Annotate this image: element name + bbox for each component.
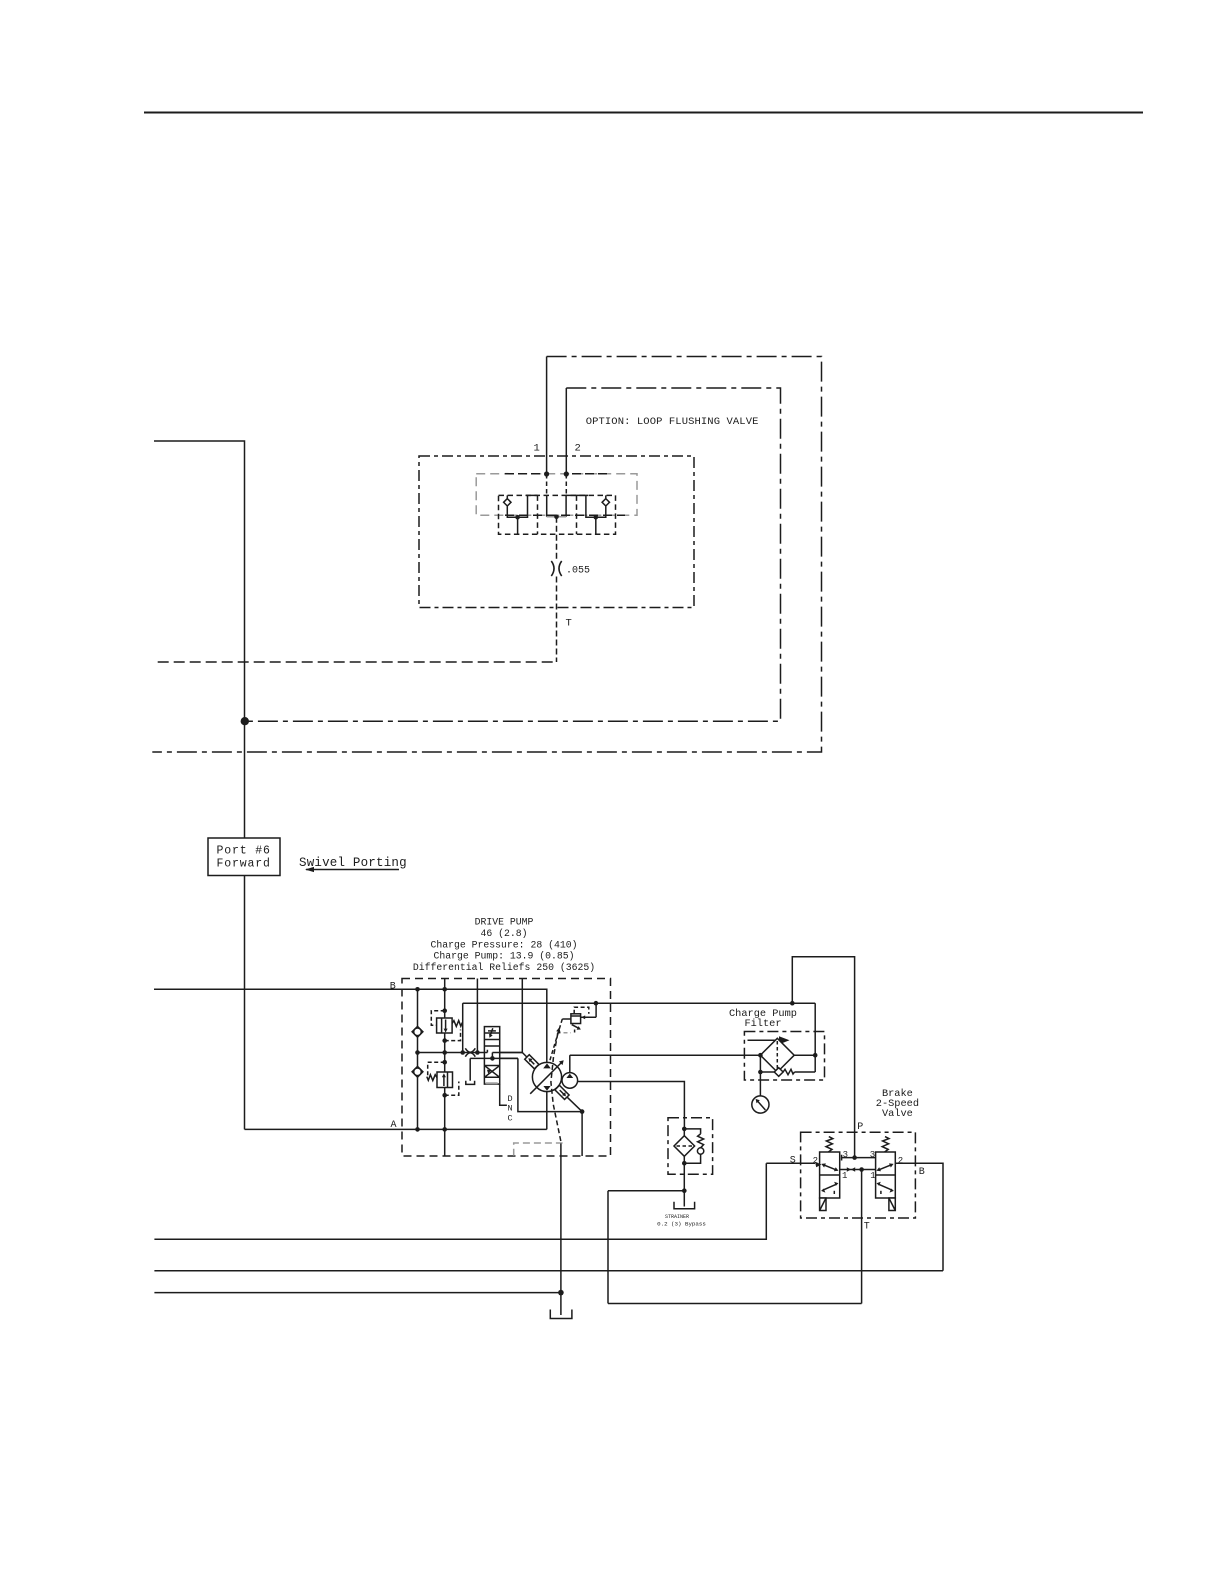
svg-text:S: S	[790, 1156, 796, 1167]
svg-text:B: B	[919, 1167, 925, 1178]
svg-text:DRIVE PUMP: DRIVE PUMP	[475, 917, 534, 928]
svg-text:2: 2	[898, 1156, 903, 1166]
svg-text:2: 2	[575, 443, 581, 455]
svg-text:OPTION: LOOP FLUSHING VALVE: OPTION: LOOP FLUSHING VALVE	[586, 416, 759, 428]
svg-text:D: D	[508, 1094, 513, 1104]
svg-text:T: T	[566, 618, 572, 630]
svg-text:1: 1	[842, 1171, 847, 1181]
svg-text:46 (2.8): 46 (2.8)	[480, 928, 527, 939]
svg-text:Valve: Valve	[882, 1108, 913, 1120]
svg-text:T: T	[864, 1222, 870, 1233]
svg-text:Charge Pump: 13.9 (0.85): Charge Pump: 13.9 (0.85)	[433, 951, 574, 962]
svg-text:2: 2	[813, 1156, 818, 1166]
svg-text:0.2 (3) Bypass: 0.2 (3) Bypass	[657, 1220, 706, 1227]
svg-text:Forward: Forward	[217, 858, 271, 871]
svg-text:Filter: Filter	[744, 1018, 781, 1030]
svg-text:Charge Pressure: 28 (410): Charge Pressure: 28 (410)	[431, 939, 578, 950]
svg-text:STRAINER: STRAINER	[665, 1214, 689, 1220]
svg-text:1: 1	[534, 443, 540, 455]
svg-text:P: P	[857, 1122, 863, 1133]
svg-text:.055: .055	[566, 566, 590, 577]
svg-text:C: C	[508, 1113, 513, 1123]
svg-text:3: 3	[843, 1150, 848, 1160]
svg-text:Swivel Porting: Swivel Porting	[299, 856, 407, 870]
svg-text:N: N	[508, 1104, 513, 1114]
svg-text:1: 1	[870, 1171, 875, 1181]
svg-text:3: 3	[870, 1150, 875, 1160]
svg-text:A: A	[391, 1120, 397, 1131]
svg-text:Differential Reliefs 250 (3625: Differential Reliefs 250 (3625)	[413, 962, 595, 973]
svg-text:B: B	[390, 982, 396, 993]
svg-text:Port #6: Port #6	[217, 845, 271, 858]
